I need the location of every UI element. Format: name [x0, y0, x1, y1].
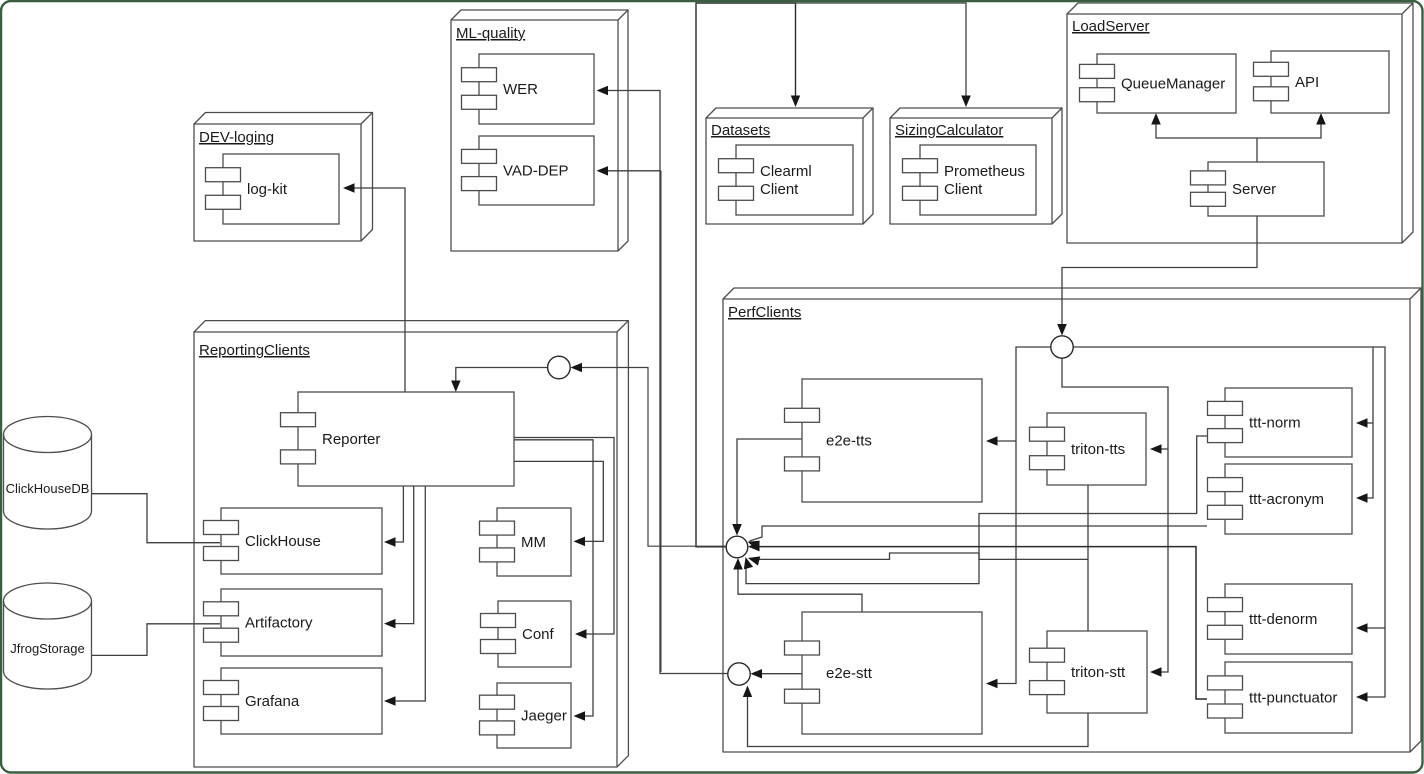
- svg-text:ClickHouse: ClickHouse: [245, 533, 321, 550]
- svg-text:Prometheus: Prometheus: [944, 163, 1025, 180]
- svg-text:ML-quality: ML-quality: [456, 25, 526, 42]
- svg-text:Datasets: Datasets: [711, 122, 770, 139]
- svg-text:Server: Server: [1232, 181, 1276, 198]
- svg-text:Clearml: Clearml: [760, 163, 812, 180]
- svg-text:e2e-stt: e2e-stt: [826, 665, 873, 682]
- svg-text:ttt-denorm: ttt-denorm: [1249, 611, 1317, 628]
- svg-text:log-kit: log-kit: [247, 181, 288, 198]
- svg-text:SizingCalculator: SizingCalculator: [895, 122, 1003, 139]
- svg-text:API: API: [1295, 74, 1319, 91]
- svg-text:QueueManager: QueueManager: [1121, 76, 1225, 93]
- svg-text:Reporter: Reporter: [322, 431, 380, 448]
- svg-text:PerfClients: PerfClients: [728, 304, 801, 321]
- svg-text:ttt-acronym: ttt-acronym: [1249, 491, 1324, 508]
- svg-text:ttt-punctuator: ttt-punctuator: [1249, 690, 1337, 707]
- svg-text:ReportingClients: ReportingClients: [199, 342, 310, 359]
- svg-text:DEV-loging: DEV-loging: [199, 129, 274, 146]
- svg-text:e2e-tts: e2e-tts: [826, 433, 872, 450]
- svg-text:ClickHouseDB: ClickHouseDB: [6, 481, 90, 496]
- svg-text:Conf: Conf: [522, 626, 555, 643]
- svg-text:MM: MM: [521, 534, 546, 551]
- svg-text:triton-stt: triton-stt: [1071, 664, 1126, 681]
- svg-text:WER: WER: [503, 81, 538, 98]
- svg-text:Jaeger: Jaeger: [521, 708, 567, 725]
- svg-text:JfrogStorage: JfrogStorage: [10, 641, 84, 656]
- svg-text:Artifactory: Artifactory: [245, 615, 313, 632]
- svg-text:Client: Client: [944, 181, 983, 198]
- svg-text:VAD-DEP: VAD-DEP: [503, 163, 569, 180]
- svg-text:Client: Client: [760, 181, 799, 198]
- svg-text:ttt-norm: ttt-norm: [1249, 415, 1301, 432]
- svg-text:triton-tts: triton-tts: [1071, 441, 1125, 458]
- svg-text:LoadServer: LoadServer: [1072, 18, 1150, 35]
- svg-text:Grafana: Grafana: [245, 693, 300, 710]
